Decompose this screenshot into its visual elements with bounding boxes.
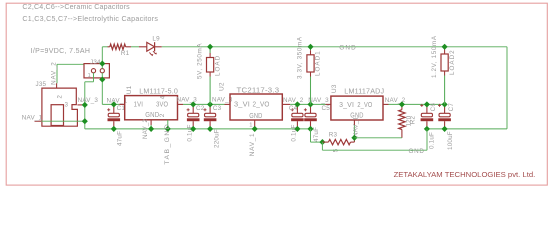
wire R1 feed from J34 pin2 up <box>101 47 103 69</box>
wire 1.2V net <box>389 103 445 105</box>
capacitor C6 0.1uF <box>420 103 437 149</box>
svg-text:220uF: 220uF <box>214 129 221 148</box>
U1 tab pin number 4 <box>160 95 166 99</box>
capacitor C2 0.1uF <box>186 104 204 141</box>
svg-text:3_VI: 3_VI <box>234 99 250 108</box>
U3 pin GND <box>350 111 364 120</box>
junction C3 top <box>207 101 213 107</box>
capacitor C5 47uF <box>304 104 330 142</box>
svg-text:J34: J34 <box>90 59 101 66</box>
capacitor C4 0.1uF <box>289 104 304 141</box>
svg-text:4: 4 <box>160 95 166 99</box>
label NAV_2 under U1 rotated <box>142 118 149 139</box>
connector J34 jumper <box>84 64 109 78</box>
svg-text:C2,C4,C6-->Ceramic Capacitors: C2,C4,C6-->Ceramic Capacitors <box>22 3 130 11</box>
junction LOAD2 at top rail <box>442 44 448 50</box>
U1 input stub <box>119 103 124 105</box>
connector J35 DC jack outline <box>42 83 78 126</box>
wire bottom GND rail right segment <box>427 128 507 130</box>
regulator U2 TC2117-3.3 box <box>230 94 282 120</box>
label U2 value <box>237 86 280 95</box>
capacitor C1 47uF <box>107 104 125 146</box>
svg-text:C5: C5 <box>322 105 331 112</box>
wire ADJ to R2 <box>354 137 402 139</box>
svg-text:R1: R1 <box>121 50 130 57</box>
U1 pin GND <box>145 110 159 119</box>
svg-text:1.2V, 150mA: 1.2V, 150mA <box>431 35 438 78</box>
svg-text:GND: GND <box>145 110 159 119</box>
svg-text:NAV_1: NAV_1 <box>22 115 43 122</box>
junction LOAD1 at top rail <box>307 44 313 50</box>
svg-text:3: 3 <box>65 102 69 108</box>
svg-text:LM1117-5.0: LM1117-5.0 <box>139 87 178 96</box>
svg-text:3_VI: 3_VI <box>339 100 354 109</box>
svg-text:0.1uF: 0.1uF <box>428 132 435 149</box>
capacitor C7 100uF <box>438 103 455 150</box>
svg-text:3.3V, 350mA: 3.3V, 350mA <box>297 36 304 79</box>
wire NAV_2 jack pin2 to J34 <box>57 64 84 83</box>
svg-text:1: 1 <box>88 73 91 79</box>
svg-text:GND: GND <box>249 111 263 120</box>
pin number 3 of J35 <box>65 102 69 108</box>
junction C7 bottom <box>442 126 448 132</box>
junction C3 bottom <box>207 126 213 132</box>
label NAV_1 under U3 rotated <box>353 116 360 137</box>
svg-text:ZETAKALYAM TECHNOLOGIES pvt. L: ZETAKALYAM TECHNOLOGIES pvt. Ltd. <box>394 170 536 179</box>
U2 pin number 1 <box>249 122 252 128</box>
label TAB_GND rotated <box>164 123 171 165</box>
junction jack pin3 <box>82 102 88 108</box>
wire J34 pin1 to ground column <box>85 73 94 129</box>
U2 output stub <box>282 103 290 105</box>
note electrolytic capacitors <box>22 15 158 23</box>
svg-text:J35: J35 <box>36 81 47 88</box>
U3 input stub <box>326 103 331 105</box>
U3 pin 3_VI <box>339 100 354 109</box>
svg-text:2: 2 <box>159 113 166 117</box>
svg-text:U3: U3 <box>331 84 338 93</box>
label NAV_3 left <box>177 96 198 103</box>
label NAV_2 after U2 <box>283 97 304 104</box>
label L9 <box>152 35 160 42</box>
U1 pin 1VI <box>134 100 144 109</box>
junction C7 top <box>442 101 448 107</box>
wire R2 bottom <box>401 130 403 138</box>
U1 GND pin wire <box>150 120 152 129</box>
U1 pin 3VO <box>156 100 168 109</box>
load resistor LOAD 5V 250mA <box>196 43 221 105</box>
svg-text:NAV_2: NAV_2 <box>50 61 57 84</box>
svg-text:TC2117-3.3: TC2117-3.3 <box>237 86 280 95</box>
load resistor LOAD2 1.2V 150mA <box>431 35 456 104</box>
svg-text:U2: U2 <box>218 82 225 91</box>
junction NAV_1 at ground column <box>82 118 88 124</box>
regulator U3 LM1117ADJ box <box>331 96 383 120</box>
label U3 name rotated <box>331 84 338 93</box>
svg-text:NAV_3: NAV_3 <box>78 97 99 104</box>
junction LOAD at top rail <box>207 44 213 50</box>
svg-text:C7: C7 <box>448 103 455 112</box>
regulator U1 LM1117-5.0 box <box>125 96 178 120</box>
label NAV_1 at jack <box>22 115 43 122</box>
svg-text:100uF: 100uF <box>447 131 454 150</box>
label U1 name rotated <box>126 85 133 94</box>
label NAV_3 before U3 <box>308 97 329 104</box>
svg-text:NAV_1: NAV_1 <box>249 133 256 157</box>
svg-text:LOAD: LOAD <box>214 55 221 76</box>
label U2 name rotated <box>218 82 225 91</box>
title block company text <box>394 170 536 179</box>
pin number 1 of J34 <box>88 73 91 79</box>
junction J34 pin2 top <box>99 61 105 67</box>
svg-text:LOAD2: LOAD2 <box>449 49 456 75</box>
label J34 <box>90 59 101 66</box>
wire R1 to LED <box>126 46 147 48</box>
label NAV_2 after U3 <box>385 97 406 104</box>
junction C4 top <box>294 101 300 107</box>
label NAV_3 at jack <box>78 97 99 104</box>
svg-text:LOAD1: LOAD1 <box>315 50 322 76</box>
label R3 value rotated <box>333 148 340 152</box>
wire R3 leads <box>322 138 354 142</box>
svg-text:LM1117ADJ: LM1117ADJ <box>344 87 384 96</box>
U2 GND pin wire <box>254 120 256 129</box>
junction C2 top <box>190 101 196 107</box>
U1 pin number 2 rotated <box>159 113 166 117</box>
svg-text:U1: U1 <box>126 85 133 94</box>
junction C5 top <box>307 101 313 107</box>
U2 pin 2_VO <box>253 99 270 108</box>
svg-text:C6: C6 <box>430 103 437 112</box>
junction U2 GND at rail <box>252 126 258 132</box>
svg-text:3VO: 3VO <box>156 100 168 109</box>
wire top GND rail <box>162 46 507 48</box>
wire 3.3V net <box>290 103 325 105</box>
svg-text:47uF: 47uF <box>116 131 123 146</box>
label NAV_3 right <box>212 96 233 103</box>
U1 TAB pin wire <box>167 120 169 129</box>
wire jack pin3 stub <box>77 104 84 106</box>
U3 pin 2_VO <box>357 100 372 109</box>
wire lower GND line <box>322 129 427 150</box>
label R2 rotated <box>409 116 416 125</box>
label U3 value <box>344 87 384 96</box>
schematic frame border <box>6 3 547 185</box>
junction ADJ node <box>351 135 357 141</box>
load resistor LOAD1 3.3V 350mA <box>297 36 322 104</box>
junction C6 top <box>424 101 430 107</box>
wire R1 left <box>102 46 110 48</box>
wire J34 pin2 down to NAV_1 row <box>102 73 119 105</box>
capacitor C3 220uF <box>204 104 222 148</box>
pin number 2 of J35 rotated <box>57 95 63 99</box>
label NAV_2 vertical <box>50 61 57 84</box>
junction C5 bottom <box>307 126 313 132</box>
LED L9 <box>147 42 162 56</box>
svg-text:2: 2 <box>57 95 63 99</box>
label 120 rotated <box>405 115 412 126</box>
wire NAV_1 jack pin1 <box>35 120 85 122</box>
label R1 <box>121 50 130 57</box>
svg-text:GND: GND <box>339 44 357 51</box>
svg-text:R2: R2 <box>409 116 416 125</box>
U2 pin 3_VI <box>234 99 250 108</box>
junction C2 bottom <box>190 126 196 132</box>
resistor R1 <box>110 44 126 49</box>
junction C4 bottom <box>294 126 300 132</box>
wire R2 top <box>401 104 403 109</box>
U3 ADJ pin wire <box>353 120 355 138</box>
U2 pin GND <box>249 111 263 120</box>
svg-text:C3: C3 <box>213 105 222 112</box>
svg-text:TAB_GND: TAB_GND <box>164 123 171 165</box>
label U1 value <box>139 87 178 96</box>
svg-text:2_VO: 2_VO <box>253 99 270 108</box>
svg-text:5V, 250mA: 5V, 250mA <box>196 43 203 79</box>
svg-text:GND: GND <box>409 148 425 155</box>
label NAV_1 before U1 <box>107 97 128 104</box>
label GND on top rail <box>339 44 357 51</box>
junction U1 GND at rail <box>148 126 154 132</box>
svg-text:C1,C3,C5,C7-->Electrolythic Ca: C1,C3,C5,C7-->Electrolythic Capacitors <box>22 15 158 23</box>
svg-text:R3: R3 <box>329 132 338 139</box>
junction U1 TAB at rail <box>165 126 171 132</box>
svg-text:C2: C2 <box>196 105 205 112</box>
U1 output stub <box>178 103 184 105</box>
wire 5V net <box>183 103 225 105</box>
svg-text:1VI: 1VI <box>134 100 144 109</box>
svg-text:L9: L9 <box>152 35 160 42</box>
svg-text:2_VO: 2_VO <box>357 100 372 109</box>
label R3 <box>329 132 338 139</box>
label J35 <box>36 81 47 88</box>
svg-text:NAV_1: NAV_1 <box>353 116 360 137</box>
svg-text:NAV_2: NAV_2 <box>142 118 149 139</box>
resistor R2 <box>399 110 405 130</box>
svg-text:I/P=9VDC, 7.5AH: I/P=9VDC, 7.5AH <box>31 48 91 55</box>
resistor R3 <box>328 139 350 144</box>
wire right edge vertical <box>506 47 508 129</box>
wire rail drop to R3 node <box>311 129 323 142</box>
label GND lower <box>409 148 425 155</box>
svg-text:NAV_2: NAV_2 <box>283 97 304 104</box>
U2 input stub <box>225 103 231 105</box>
junction C6 bottom <box>424 126 430 132</box>
junction C1 bottom <box>111 126 117 132</box>
junction R3 left <box>319 139 325 145</box>
note input supply <box>31 48 91 55</box>
U3 output stub <box>383 103 389 105</box>
junction C1 top <box>111 101 117 107</box>
junction R2 top <box>399 101 405 107</box>
note ceramic capacitors <box>22 3 130 11</box>
label NAV_1 under U2 rotated <box>249 133 256 157</box>
svg-text:1: 1 <box>249 122 252 128</box>
svg-text:47uF: 47uF <box>313 127 320 142</box>
wire bottom GND rail left segment <box>85 128 311 130</box>
junction J34 pin2 bottom <box>99 76 105 82</box>
